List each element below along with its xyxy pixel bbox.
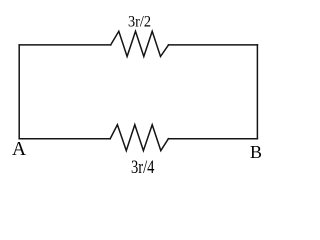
resistor R2 (3r/4) zigzag [110, 125, 168, 151]
wire top-left segment [19, 44, 111, 46]
resistor R1 (3r/2) zigzag [111, 31, 169, 56]
svg-text:3r/4: 3r/4 [131, 158, 155, 178]
svg-text:B: B [250, 142, 262, 162]
svg-text:3r/2: 3r/2 [128, 14, 151, 31]
wire bottom-right segment [168, 138, 257, 140]
wire top-right segment [169, 44, 258, 46]
wire right vertical [256, 45, 258, 139]
svg-text:A: A [12, 139, 26, 160]
wire bottom-left segment [19, 138, 110, 140]
wire left vertical [18, 45, 20, 139]
